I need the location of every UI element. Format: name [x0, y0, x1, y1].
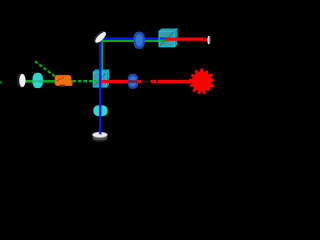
wire blue+green beams inside BS2	[160, 37, 168, 39]
lens L1 (cyan, after left mirror)	[33, 73, 43, 88]
wire blue beam over lens L3	[99, 104, 101, 119]
wire green solid beam mirror-to-AOM	[23, 80, 56, 83]
detector (photodiode cylinder)	[92, 128, 107, 143]
wire blue beam bright vertical through BS1	[99, 66, 101, 134]
wire green dashed beam AOM-to-cube	[72, 80, 100, 82]
mirror M2 (top, black backing)	[93, 30, 107, 44]
AOM (orange modulator)	[55, 75, 73, 86]
lens L2 (blue, row 2)	[128, 74, 138, 89]
fiber tip	[207, 36, 210, 44]
wire green dashed beam inside BS1	[94, 80, 101, 82]
wire red beam combiner-to-fiber (row 1)	[166, 37, 203, 40]
beam band through lens L1	[33, 80, 43, 82]
beamsplitter cube BS1	[93, 70, 108, 87]
scatter source (red starburst)	[189, 69, 215, 95]
lens L3 (cyan, above detector)	[93, 105, 107, 116]
wire red dash segment (arrow)	[150, 80, 156, 83]
wire blue beam (mirror corner down to detector, and right to combiner)	[100, 39, 168, 134]
wire red beam to scatter source	[158, 80, 195, 83]
red arrowhead at fiber	[204, 37, 208, 42]
mirror M1 (left, black backing)	[18, 74, 24, 88]
mirror M1 face	[19, 74, 25, 87]
mirror M2 face	[94, 30, 108, 44]
wire red faint beam segment after lens	[141, 81, 149, 83]
wire green beam stub at left edge	[0, 81, 2, 83]
wire green beam vertical+horizontal (cube to mirror to combiner)	[102, 41, 167, 80]
dichroic combiner cube BS2	[159, 29, 177, 47]
wire red beam BS1-to-lens (row 2)	[101, 80, 141, 83]
lens L4 (blue, row 1)	[134, 32, 145, 49]
wire green dashed deflected beam (diagonal)	[35, 61, 57, 77]
